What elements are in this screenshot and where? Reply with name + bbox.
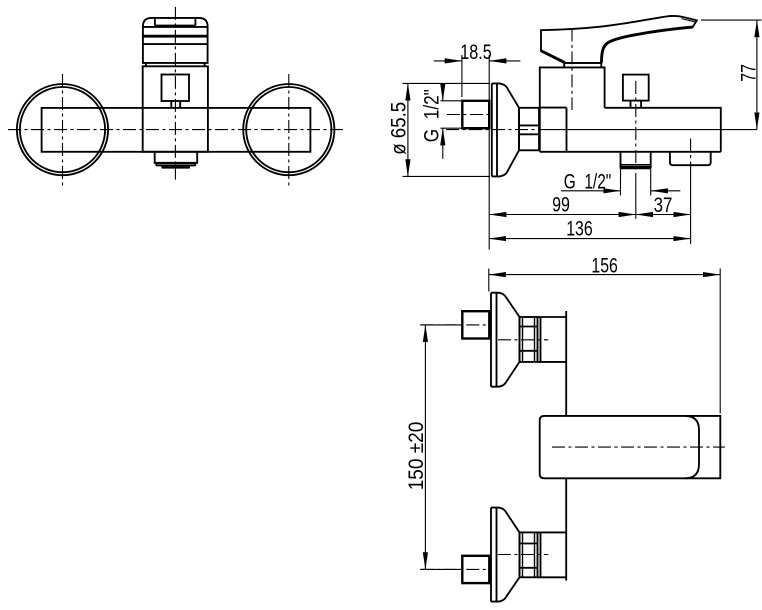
- bottom view mounting face line: [565, 311, 567, 581]
- left escutcheon inner circle: [20, 87, 105, 172]
- front body vertical centerline: [174, 7, 176, 180]
- side body flange: [540, 108, 567, 152]
- svg-text:99: 99: [552, 194, 570, 217]
- front handle cap bold band: [143, 35, 208, 38]
- side cap lip: [564, 63, 602, 68]
- front handle cap lower line: [143, 43, 208, 45]
- bottom view top union stub: [462, 311, 489, 338]
- right escutcheon inner circle: [246, 87, 331, 172]
- front cap feet: [146, 63, 205, 66]
- front handle cap top panel: [143, 18, 208, 27]
- side bath outlet stub: [621, 152, 651, 169]
- bottom view top union nut: [520, 317, 538, 362]
- dimension 156 lines: [489, 269, 720, 414]
- dimension 77 lines: [701, 20, 762, 130]
- side escutcheon cone: [492, 83, 519, 176]
- bottom view bottom union stub centerline: [420, 568, 489, 570]
- svg-text:G 1/2": G 1/2": [421, 89, 444, 142]
- front handle cap outline: [143, 18, 208, 63]
- bottom view bottom union cone: [491, 508, 520, 602]
- side lever handle: [541, 16, 697, 110]
- side check valve stub: [670, 152, 711, 165]
- side check valve centerline: [690, 139, 692, 245]
- svg-text:ø 65.5: ø 65.5: [387, 102, 410, 155]
- bottom view bottom union stub: [462, 556, 489, 583]
- front body arm: [42, 108, 311, 152]
- front spout lip: [156, 163, 195, 165]
- svg-text:150 ±20: 150 ±20: [405, 422, 428, 491]
- bottom view top union collar: [538, 317, 567, 362]
- svg-text:37: 37: [654, 194, 673, 217]
- front spout aerator: [161, 166, 190, 169]
- dimension 136 line: [489, 238, 691, 240]
- side main axis centerline: [446, 129, 757, 131]
- bottom view top union stub centerline: [420, 324, 489, 326]
- left escutcheon vertical centerline: [62, 74, 64, 186]
- bottom view bottom union nut: [520, 532, 538, 577]
- dimension 99 line: [489, 214, 636, 216]
- svg-text:G 1/2": G 1/2": [564, 171, 612, 194]
- dimension 18.5 lines: [434, 55, 521, 250]
- side bath outlet centerline: [635, 81, 637, 219]
- front spout upper: [155, 152, 198, 163]
- side inlet stub: [441, 101, 490, 128]
- front diverter square: [162, 75, 190, 102]
- side body arm: [540, 108, 721, 152]
- side body block: [540, 67, 605, 151]
- dimension 150 +-20 lines: [420, 325, 462, 570]
- dimension 37 line: [636, 214, 691, 216]
- dimension dia 65.5 lines: [403, 83, 491, 176]
- front horizontal centerline: [8, 129, 344, 131]
- right escutcheon outer circle: [243, 84, 334, 175]
- right escutcheon vertical centerline: [288, 74, 290, 186]
- side mounting nut: [519, 108, 539, 151]
- bottom view spout outline: [540, 416, 721, 478]
- bottom view bottom union axis centerline: [498, 554, 548, 556]
- bottom view top union cone: [491, 293, 520, 387]
- svg-text:18.5: 18.5: [460, 41, 491, 64]
- svg-text:136: 136: [566, 217, 593, 240]
- side diverter knob: [623, 75, 649, 101]
- front diverter stub: [171, 101, 180, 108]
- bottom view bottom union collar: [538, 532, 567, 577]
- side inlet stub centerline: [447, 114, 490, 116]
- dimension G 1/2 inlet lines: [442, 87, 444, 159]
- left escutcheon outer circle: [17, 84, 108, 175]
- dimension G 1/2 outlet lines: [561, 168, 680, 195]
- side diverter stub: [631, 101, 642, 108]
- bottom view top union axis centerline: [498, 339, 548, 341]
- front body block: [143, 66, 208, 152]
- bottom view spout centerline: [552, 446, 725, 448]
